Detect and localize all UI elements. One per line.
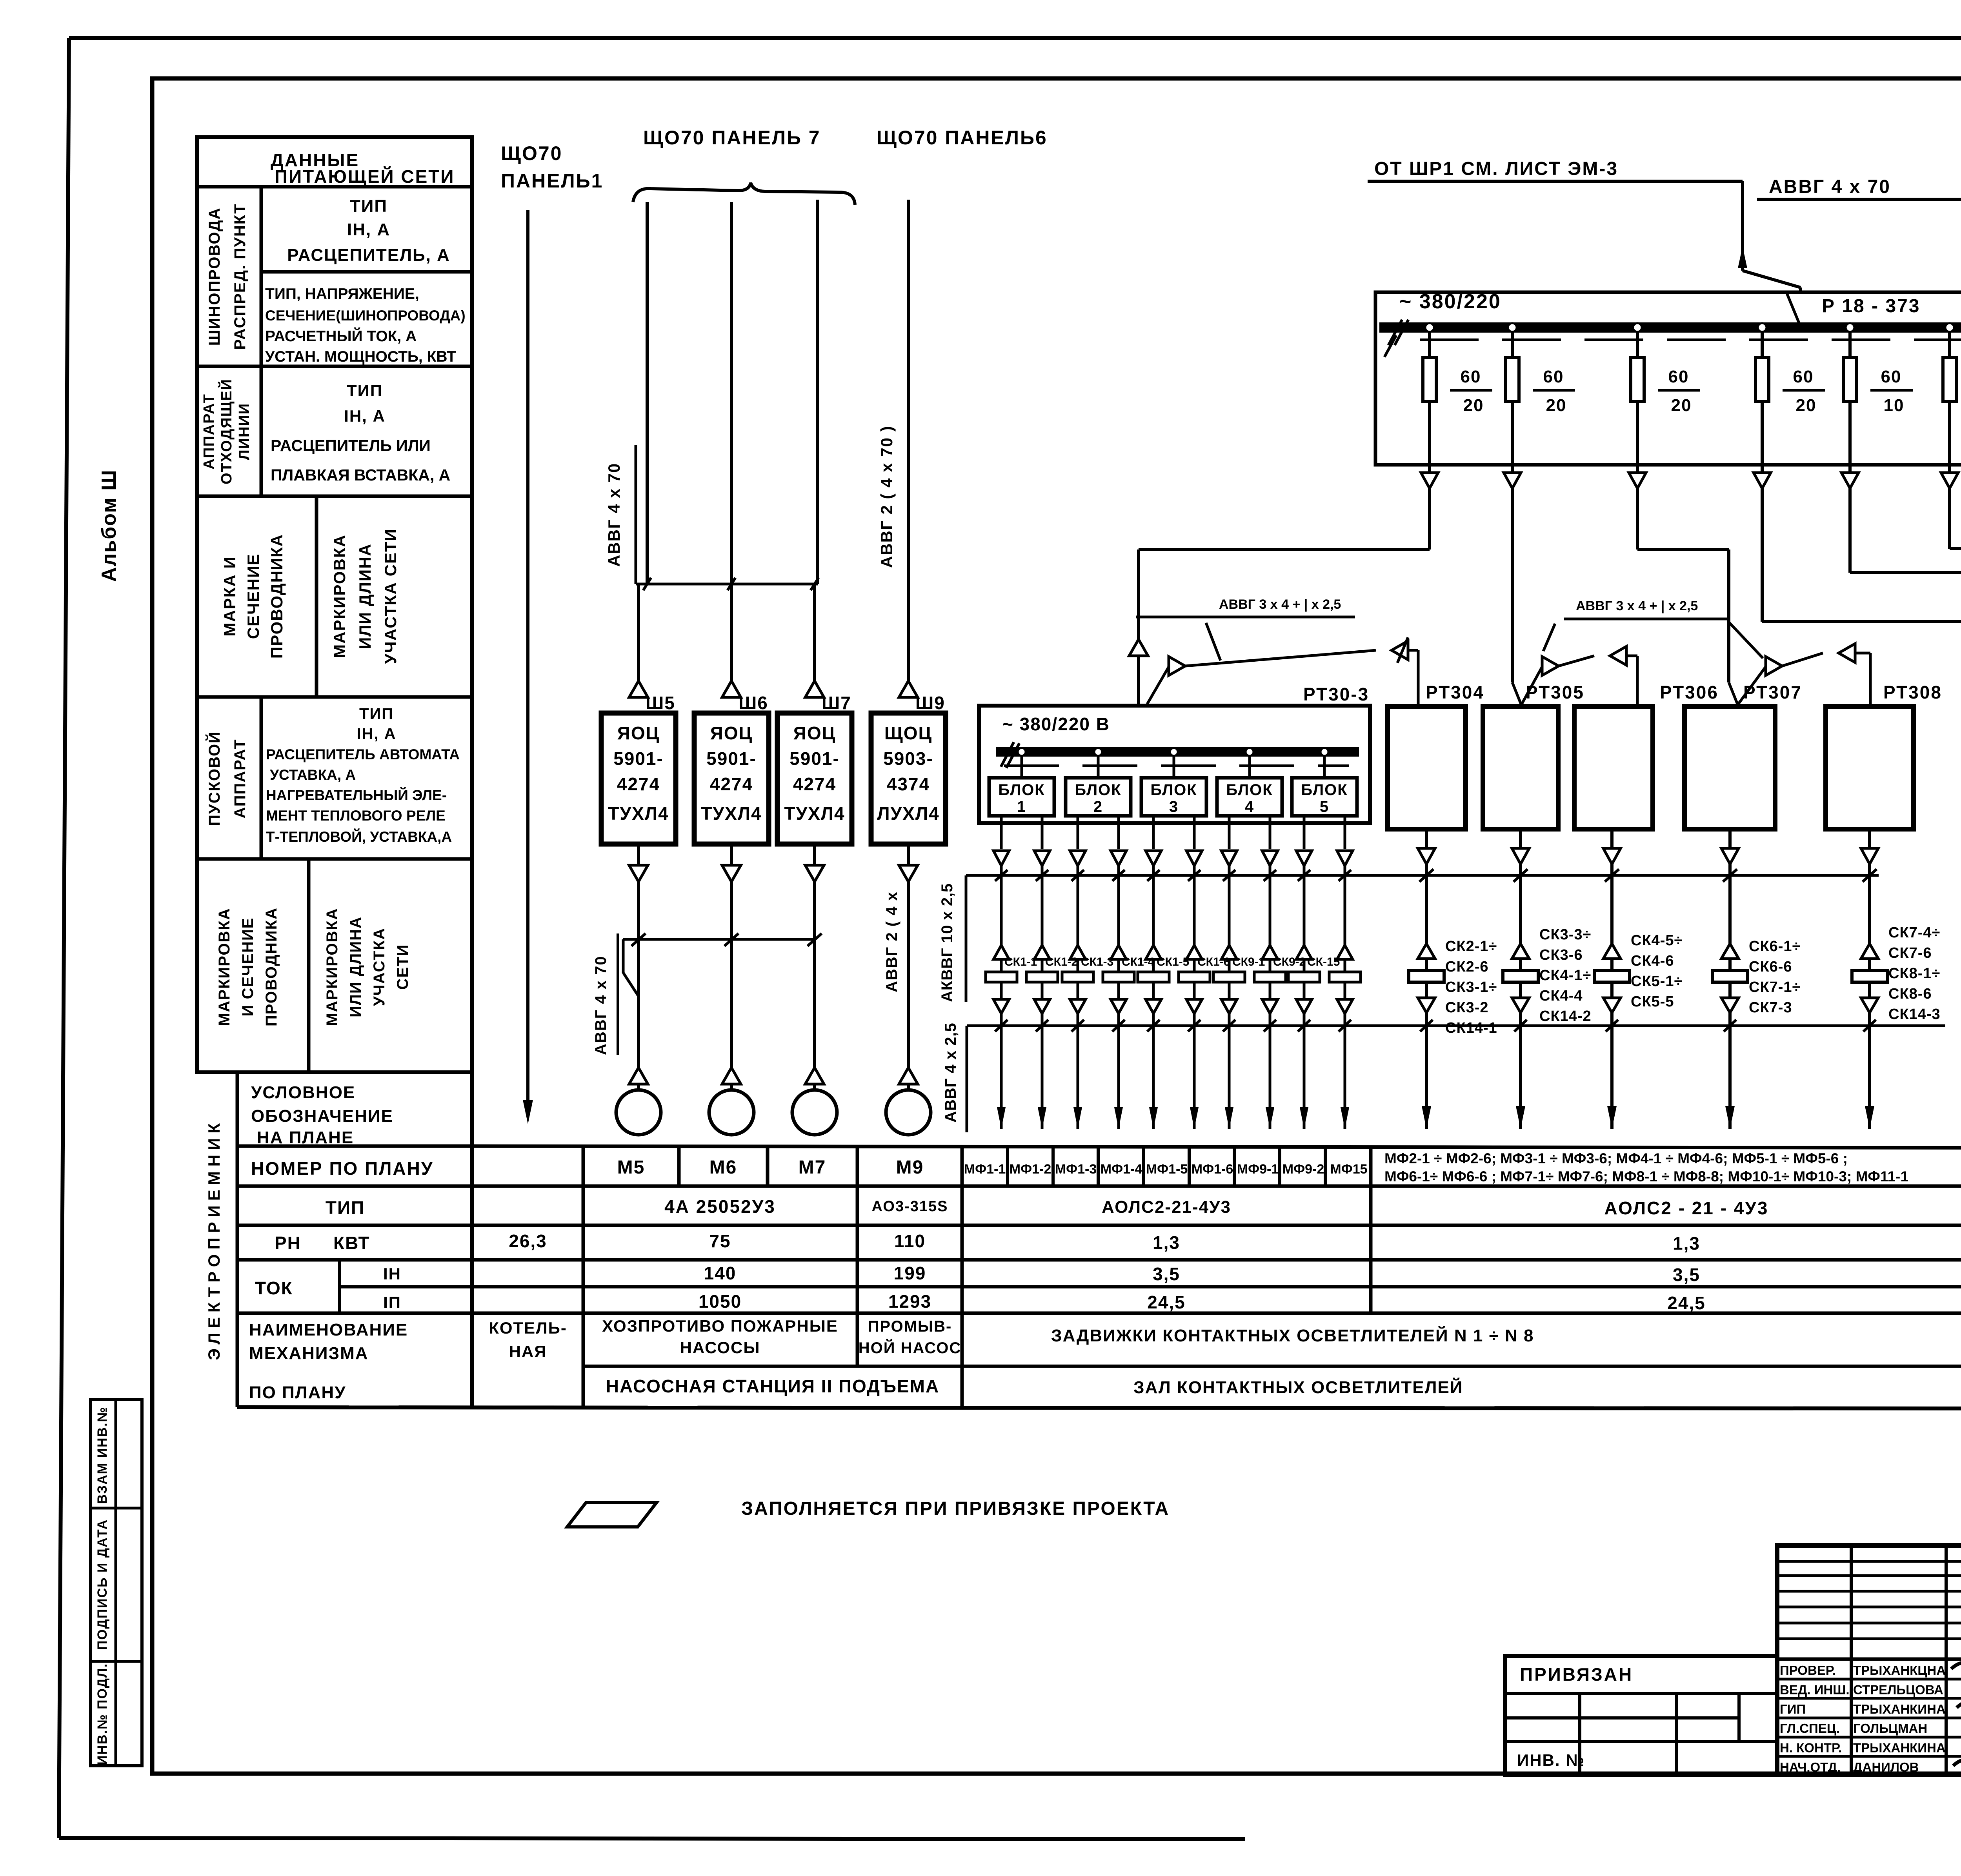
fuse СК drop 7 [1213, 875, 1245, 1026]
circuit breaker box Ш6 [694, 713, 769, 844]
svg-text:ТУХЛ4: ТУХЛ4 [608, 803, 669, 824]
svg-text:Ш5: Ш5 [646, 693, 675, 713]
label АВВГ 4х70 on Ш5 riser [605, 445, 636, 584]
svg-text:~ 380/220: ~ 380/220 [1399, 290, 1501, 313]
wire М5 drop [637, 882, 640, 1068]
label fuse 60/20 [1658, 367, 1700, 415]
type 4А 2505 2У3 [664, 1196, 776, 1217]
relay box РТ306 [1574, 706, 1653, 829]
node РТ30-3 tap 5 [1321, 748, 1328, 756]
wire СК collector [967, 1026, 1945, 1132]
svg-text:АОЛС2-21-4У3: АОЛС2-21-4У3 [1102, 1197, 1231, 1217]
svg-text:ЩО70 ПАНЕЛЬ6: ЩО70 ПАНЕЛЬ6 [877, 127, 1048, 149]
label 380/220В РТ30-3 [1002, 714, 1110, 734]
label Альбом III [98, 469, 120, 582]
cell Маркировка или длина участка сети 2 [324, 908, 411, 1026]
svg-text:Т-ТЕПЛОВОЙ, УСТАВКА,А: Т-ТЕПЛОВОЙ, УСТАВКА,А [266, 828, 452, 845]
svg-text:УСЛОВНОЕ: УСЛОВНОЕ [251, 1083, 355, 1102]
svg-text:ЗАДВИЖКИ КОНТАКТНЫХ ОСВЕТ: ЗАДВИЖКИ КОНТАКТНЫХ ОСВЕТЛИТЕЛЕЙ N 1 ÷ N… [1051, 1325, 1534, 1345]
node ШР2 tap 1 [1425, 323, 1434, 332]
node Ш9 feeder triangle [899, 681, 918, 697]
svg-text:АВВГ 4 х 70: АВВГ 4 х 70 [592, 955, 609, 1055]
switch РТ307 input [1729, 682, 1738, 706]
wire upper interconnect Ш5-Ш7 [636, 578, 819, 590]
svg-text:ИЛИ ДЛИНА: ИЛИ ДЛИНА [356, 543, 374, 649]
svg-text:РТ30-3: РТ30-3 [1303, 684, 1369, 704]
svg-text:5901-: 5901- [789, 748, 840, 769]
wire БЛОК output 5 [1146, 816, 1161, 881]
relay box РТ307 [1684, 706, 1775, 829]
value МФ15 [1330, 1162, 1367, 1177]
svg-text:Альбом Ш: Альбом Ш [98, 469, 120, 582]
svg-text:5901-: 5901- [613, 748, 664, 769]
svg-text:24,5: 24,5 [1667, 1293, 1706, 1313]
svg-text:АППАРАТ: АППАРАТ [231, 739, 249, 818]
svg-text:4274: 4274 [617, 774, 660, 794]
label СК-15 [1307, 955, 1340, 968]
svg-text:1: 1 [1017, 798, 1026, 815]
wire РТ304 fuse drop [1409, 875, 1444, 1026]
cell Условное обозначение на плане [251, 1083, 393, 1147]
wire БЛОК output 8 [1262, 816, 1278, 881]
circuit breaker box Ш5 [601, 713, 676, 844]
label СК1-5 [1157, 955, 1189, 968]
label fuse 60/20 [1533, 367, 1575, 415]
label СК1-6 [1197, 955, 1230, 968]
label РТ305 [1526, 682, 1584, 702]
svg-text:ХОЗПРОТИВО ПОЖАРНЫЕ: ХОЗПРОТИВО ПОЖАРНЫЕ [602, 1317, 838, 1335]
svg-text:IН, А: IН, А [357, 725, 396, 742]
svg-text:ГЛ.СПЕЦ.: ГЛ.СПЕЦ. [1780, 1721, 1840, 1736]
svg-text:ТРЫХАНКИНА: ТРЫХАНКИНА [1853, 1702, 1946, 1716]
wire РТ30-3 riser corner [1138, 550, 1139, 617]
wire РТ304 output [1418, 829, 1435, 875]
svg-text:СК1-4: СК1-4 [1122, 955, 1155, 968]
label СК9-1 [1232, 955, 1265, 968]
svg-text:4А 25052У3: 4А 25052У3 [664, 1196, 776, 1217]
block БЛОК 3 [1141, 756, 1206, 816]
svg-text:ПУСКОВОЙ: ПУСКОВОЙ [205, 731, 223, 826]
node Ш5 feeder triangle [629, 681, 648, 697]
arrow МФ group feeder 2 [1516, 1026, 1525, 1129]
label АВВГ 4х70 incoming [1757, 177, 1961, 199]
left margin strip [91, 1399, 142, 1766]
wire drop4 to ЯУ2 [1762, 488, 1961, 650]
bus РТ30-3 [996, 747, 1359, 757]
svg-text:ПОДПИСЬ И ДАТА: ПОДПИСЬ И ДАТА [95, 1519, 110, 1650]
block БЛОК 1 [989, 756, 1054, 816]
wire Ш6 output [722, 844, 741, 882]
wire РТ308 fuse drop [1852, 875, 1887, 1026]
row label Номер по плану [251, 1158, 433, 1179]
fuse СК drop 6 [1179, 875, 1210, 1026]
label 380/220 in ШР2 [1399, 290, 1501, 313]
label от ШР1 см лист ЭМ-3 [1374, 158, 1618, 179]
row label Аппарат отходящей линии [201, 378, 253, 484]
label Р18-373 [1822, 296, 1920, 317]
arrow on incoming wire [1738, 246, 1747, 268]
wire РТ305 fuse drop [1503, 875, 1538, 1026]
svg-text:МФ1-2: МФ1-2 [1010, 1162, 1051, 1177]
wire Ш5 output [629, 844, 648, 882]
motor М5 [616, 1068, 661, 1135]
svg-text:АВВГ 4 х 70: АВВГ 4 х 70 [605, 463, 623, 567]
svg-text:КВТ: КВТ [333, 1233, 370, 1253]
Рн 110 [894, 1231, 926, 1251]
svg-text:И СЕЧЕНИЕ: И СЕЧЕНИЕ [239, 917, 256, 1017]
switch РТ305 input [1512, 682, 1522, 706]
wire М9 drop [907, 882, 910, 1068]
wire БЛОК output 10 [1337, 816, 1353, 881]
wire М6 drop [726, 882, 731, 1068]
svg-text:М5: М5 [617, 1157, 645, 1178]
svg-text:МАРКИРОВКА: МАРКИРОВКА [330, 534, 349, 658]
svg-text:ТОК: ТОК [255, 1278, 293, 1298]
joint РТ305 to РТ306 [1522, 646, 1637, 706]
block БЛОК 4 [1217, 756, 1282, 816]
stamp ПРИВЯЗАН block [1505, 1656, 1777, 1775]
arrow МФ feeder 3 [1073, 1026, 1082, 1129]
label СК group at 4815 [1888, 924, 1941, 1023]
svg-text:ТИП: ТИП [350, 197, 387, 216]
svg-text:СК2-1÷: СК2-1÷ [1445, 938, 1497, 955]
svg-text:ТИП: ТИП [359, 705, 394, 722]
fuse СК drop 9 [1288, 875, 1320, 1026]
switch ШР2 incoming [1787, 293, 1801, 327]
node РТ30-3 tap 1 [1018, 748, 1026, 756]
svg-text:РАСЦЕПИТЕЛЬ АВТОМАТА: РАСЦЕПИТЕЛЬ АВТОМАТА [266, 746, 460, 762]
svg-text:МФ1-5: МФ1-5 [1146, 1162, 1188, 1177]
row label Пусковой аппарат [205, 731, 249, 826]
svg-text:МФ2-1 ÷ МФ2-6; МФ3-1 ÷ МФ3-6;: МФ2-1 ÷ МФ2-6; МФ3-1 ÷ МФ3-6; МФ4-1 ÷ МФ… [1384, 1150, 1848, 1166]
Рн 1,3 b [1673, 1233, 1700, 1254]
svg-text:1293: 1293 [888, 1291, 931, 1312]
row label Шинопровода распред пункт [206, 203, 249, 349]
svg-text:СК14-1: СК14-1 [1445, 1020, 1497, 1036]
svg-text:НАЯ: НАЯ [509, 1342, 547, 1361]
svg-text:СЕЧЕНИЕ(ШИНОПРОВОДА): СЕЧЕНИЕ(ШИНОПРОВОДА) [265, 308, 466, 324]
svg-text:БЛОК: БЛОК [1150, 781, 1197, 799]
Рн 1,3 a [1153, 1232, 1180, 1253]
value М7 [799, 1157, 826, 1178]
wire drop5 to КМ6 [1850, 488, 1961, 706]
svg-text:СК4-5÷: СК4-5÷ [1631, 932, 1683, 949]
wire ШР2 drop 6 [1941, 465, 1958, 488]
cell Марка и сечение проводника [220, 534, 286, 659]
value М5 [617, 1157, 645, 1178]
wire М7 drop [813, 882, 816, 1068]
wire from ШР1 [1368, 181, 1801, 293]
arrow МФ feeder 10 [1341, 1026, 1349, 1129]
svg-text:СК7-1÷: СК7-1÷ [1749, 979, 1801, 995]
svg-text:СК14-2: СК14-2 [1539, 1008, 1592, 1024]
svg-text:2: 2 [1093, 798, 1103, 815]
svg-text:СК1-1: СК1-1 [1004, 955, 1037, 968]
svg-text:5: 5 [1320, 798, 1329, 815]
svg-text:РТ304: РТ304 [1426, 682, 1484, 702]
wire Ш7 output [805, 844, 824, 882]
Рн 75 [709, 1231, 731, 1251]
node ШР2 tap 4 [1758, 323, 1766, 332]
svg-text:УСТАН. МОЩНОСТЬ, КВТ: УСТАН. МОЩНОСТЬ, КВТ [265, 348, 456, 365]
svg-text:ЯОЦ: ЯОЦ [617, 723, 660, 743]
svg-text:ПРОМЫВ-: ПРОМЫВ- [868, 1318, 952, 1335]
wire Ш9 riser / панель6 feeder [907, 200, 910, 683]
label АВВГ2 4х70 М9 drop [883, 891, 900, 992]
svg-text:IП: IП [383, 1293, 401, 1312]
svg-text:ОТХОДЯЩЕЙ: ОТХОДЯЩЕЙ [217, 378, 235, 484]
svg-text:20: 20 [1796, 396, 1817, 415]
label АВВГ 3х4+1х2,5 group1 [1136, 597, 1355, 661]
svg-text:ПРОВОДНИКА: ПРОВОДНИКА [267, 534, 286, 659]
svg-text:ТИП: ТИП [326, 1197, 365, 1218]
cell Маркировка и сечение проводника 2 [216, 907, 280, 1026]
wire РТ collector [966, 875, 1879, 1002]
svg-text:БЛОК: БЛОК [1226, 781, 1273, 799]
wire drop3 to РТ307 [1637, 488, 1729, 682]
svg-text:ЗАЛ КОНТАКТНЫХ ОСВЕТЛ: ЗАЛ КОНТАКТНЫХ ОСВЕТЛИТЕЛЕЙ [1133, 1377, 1463, 1397]
label ЩО70 панель6 [877, 127, 1048, 149]
svg-text:НОМЕР ПО ПЛАНУ: НОМЕР ПО ПЛАНУ [251, 1158, 433, 1179]
wire ЩО70 панель1 feeder to Котельная [526, 210, 529, 1101]
svg-text:АКВВГ 10 х 2,5: АКВВГ 10 х 2,5 [939, 883, 956, 1002]
label СК group at 3685 [1445, 938, 1497, 1036]
fuse СК drop 5 [1138, 875, 1169, 1026]
name Насосная станция II подъема [606, 1376, 939, 1396]
svg-text:ЯОЦ: ЯОЦ [793, 723, 836, 743]
node ШР2 tap 3 [1633, 323, 1642, 332]
svg-text:75: 75 [709, 1231, 731, 1251]
svg-text:24,5: 24,5 [1147, 1292, 1186, 1312]
feeder data table [197, 137, 472, 1407]
wire ШР2 drop 4 [1754, 465, 1771, 488]
Iн 3,5 a [1153, 1264, 1180, 1284]
Iп 1050 [699, 1291, 742, 1312]
svg-text:ПО ПЛАНУ: ПО ПЛАНУ [249, 1383, 346, 1402]
svg-text:РН: РН [275, 1233, 301, 1253]
arrow МФ group feeder 1 [1422, 1026, 1431, 1129]
svg-text:3: 3 [1169, 798, 1179, 815]
svg-text:3,5: 3,5 [1153, 1264, 1180, 1284]
svg-text:5903-: 5903- [883, 748, 933, 769]
label ЩО70 панель7 [643, 127, 821, 149]
label fuse 60/10 [1870, 367, 1913, 415]
svg-text:АВВГ 2 ( 4 х 70 ): АВВГ 2 ( 4 х 70 ) [877, 425, 896, 568]
svg-text:ТУХЛ4: ТУХЛ4 [784, 803, 845, 824]
label АВВГ 4х70 М5 drop [592, 933, 618, 1055]
svg-text:СК3-1÷: СК3-1÷ [1445, 979, 1497, 995]
arrow Котельная feeder end [523, 1100, 533, 1124]
svg-text:ДАНИЛОВ: ДАНИЛОВ [1853, 1760, 1919, 1774]
wire ШР2 drop 5 [1841, 465, 1859, 488]
arrow МФ feeder 6 [1190, 1026, 1199, 1129]
svg-text:МАРКИРОВКА: МАРКИРОВКА [216, 908, 233, 1026]
svg-text:МАРКИРОВКА: МАРКИРОВКА [324, 908, 341, 1026]
label ЩО70 панель1 [501, 142, 603, 192]
Iн 3,5 b [1673, 1265, 1700, 1285]
wire РТ305 output [1512, 829, 1529, 875]
svg-text:ОБОЗНАЧЕНИЕ: ОБОЗНАЧЕНИЕ [251, 1106, 393, 1126]
svg-text:1,3: 1,3 [1673, 1233, 1700, 1254]
label СК group at 3925 [1539, 926, 1592, 1024]
svg-text:ТУХЛ4: ТУХЛ4 [701, 803, 762, 824]
circuit breaker box Ш9 [871, 713, 946, 844]
fuse СК drop 8 [1254, 875, 1286, 1026]
svg-text:1050: 1050 [699, 1291, 742, 1312]
svg-text:20: 20 [1546, 396, 1567, 415]
svg-text:ЩОЦ: ЩОЦ [884, 723, 932, 743]
wire Ш5 riser [639, 202, 647, 683]
fuse FU5 [1843, 332, 1857, 465]
cell Тип Iн Расцепитель или плавкая вставка [271, 381, 450, 484]
svg-text:МФ1-4: МФ1-4 [1101, 1162, 1142, 1177]
svg-text:ПРОВОДНИКА: ПРОВОДНИКА [263, 907, 280, 1026]
label Ш5 [646, 693, 675, 713]
arrow МФ feeder 8 [1266, 1026, 1274, 1129]
wire drop6 to Резерв1 [1950, 488, 1961, 961]
svg-text:УЧАСТКА: УЧАСТКА [371, 928, 388, 1006]
svg-text:СК1-6: СК1-6 [1197, 955, 1230, 968]
svg-text:МФ9-1: МФ9-1 [1237, 1162, 1279, 1177]
svg-text:МФ6-1÷ МФ6-6 ; МФ7-1÷ МФ7-6;: МФ6-1÷ МФ6-6 ; МФ7-1÷ МФ7-6; МФ8-1 ÷ МФ8… [1384, 1168, 1908, 1185]
svg-text:НАЧ.ОТД.: НАЧ.ОТД. [1780, 1760, 1841, 1774]
value МФ1-6 [1192, 1162, 1233, 1177]
wire ШР2 drop 2 [1504, 465, 1521, 488]
svg-text:СК6-1÷: СК6-1÷ [1749, 938, 1801, 955]
svg-text:МФ15: МФ15 [1330, 1162, 1367, 1177]
value МФ9-2 [1282, 1162, 1324, 1177]
label СК1-2 [1045, 955, 1078, 968]
svg-text:ПРОВЕР.: ПРОВЕР. [1780, 1663, 1836, 1678]
svg-text:СК1-3: СК1-3 [1081, 955, 1113, 968]
relay box РТ308 [1826, 706, 1914, 829]
svg-text:СК1-5: СК1-5 [1157, 955, 1189, 968]
svg-text:МФ9-2: МФ9-2 [1282, 1162, 1324, 1177]
type АОЛС2-21-4У3 b [1604, 1198, 1768, 1218]
fuse СК drop 3 [1062, 875, 1093, 1026]
fuse СК drop 2 [1026, 875, 1058, 1026]
svg-text:АВВГ 2 ( 4 х: АВВГ 2 ( 4 х [883, 891, 900, 992]
label РТ307 [1743, 682, 1802, 702]
arrow МФ group feeder 3 [1607, 1026, 1617, 1129]
stamp persons column [1780, 1663, 1946, 1774]
type АО3-315S [871, 1198, 948, 1215]
svg-text:АВВГ 4 х 70: АВВГ 4 х 70 [1769, 177, 1891, 197]
svg-text:НАСОСНАЯ СТАНЦИЯ II ПОДЪЕМА: НАСОСНАЯ СТАНЦИЯ II ПОДЪЕМА [606, 1376, 939, 1396]
svg-text:СК8-1÷: СК8-1÷ [1888, 965, 1940, 982]
svg-text:ШИНОПРОВОДА: ШИНОПРОВОДА [206, 207, 223, 346]
motor М7 [792, 1068, 837, 1135]
svg-text:4274: 4274 [793, 774, 836, 794]
label СК group at 4158 [1631, 932, 1683, 1010]
value М9 [896, 1157, 924, 1178]
svg-text:РАСЧЕТНЫЙ ТОК, А: РАСЧЕТНЫЙ ТОК, А [265, 327, 417, 345]
svg-text:60: 60 [1543, 367, 1564, 386]
svg-text:АППАРАТ: АППАРАТ [201, 393, 217, 469]
svg-text:НАГРЕВАТЕЛЬНЫЙ ЭЛЕ-: НАГРЕВАТЕЛЬНЫЙ ЭЛЕ- [266, 787, 447, 803]
node РТ30-3 tap 3 [1170, 748, 1178, 756]
wire БЛОК output 1 [993, 816, 1009, 881]
cabinet ШР2 [1375, 292, 1961, 465]
svg-text:М6: М6 [709, 1157, 737, 1178]
value М6 [709, 1157, 737, 1178]
svg-text:МФ1-3: МФ1-3 [1055, 1162, 1097, 1177]
node ШР2 tap 2 [1508, 323, 1517, 332]
cell Тип напряжение сечение шинопровода [265, 286, 466, 365]
svg-text:МЕНТ ТЕПЛОВОГО РЕЛЕ: МЕНТ ТЕПЛОВОГО РЕЛЕ [266, 808, 446, 824]
svg-text:20: 20 [1463, 396, 1484, 415]
relay box РТ305 [1483, 706, 1558, 829]
svg-text:ЗАПОЛНЯЕТСЯ ПРИ ПРИВЯЗКЕ: ЗАПОЛНЯЕТСЯ ПРИ ПРИВЯЗКЕ ПРОЕКТА [741, 1498, 1170, 1519]
name Промывной насос [859, 1318, 962, 1357]
label АКВВГ 10х2,5 area [939, 883, 956, 1002]
label АВВГ 4х2,5 area [942, 1023, 959, 1123]
svg-text:МАРКА И: МАРКА И [220, 556, 239, 636]
svg-text:ТИП, НАПРЯЖЕНИЕ,: ТИП, НАПРЯЖЕНИЕ, [265, 286, 419, 302]
svg-text:ПРИВЯЗАН: ПРИВЯЗАН [1520, 1664, 1633, 1685]
wire Ш9 output [899, 844, 918, 882]
svg-text:ИНВ. №: ИНВ. № [1517, 1751, 1585, 1769]
label ИНВ № ПОДЛ [95, 1663, 110, 1765]
svg-text:СК7-6: СК7-6 [1888, 945, 1932, 961]
svg-text:СК5-1÷: СК5-1÷ [1631, 973, 1683, 990]
svg-text:ГИП: ГИП [1780, 1702, 1806, 1716]
svg-text:СК9-1: СК9-1 [1232, 955, 1265, 968]
svg-text:20: 20 [1671, 396, 1692, 415]
joint РТ30-3 to РТ304 [1147, 637, 1418, 706]
wire drop1 to РТ30-3 [1129, 488, 1430, 711]
svg-text:60: 60 [1881, 367, 1902, 386]
fuse СК drop 10 [1329, 875, 1361, 1026]
label СК1-1 [1004, 955, 1037, 968]
svg-text:ПЛАВКАЯ ВСТАВКА, А: ПЛАВКАЯ ВСТАВКА, А [271, 466, 450, 484]
svg-text:РТ306: РТ306 [1660, 682, 1719, 702]
svg-text:АВВГ 3 х 4 + | х 2,5: АВВГ 3 х 4 + | х 2,5 [1576, 599, 1698, 613]
node РТ30-3 tap 4 [1246, 748, 1253, 756]
label ПОДПИСЬ И ДАТА [95, 1519, 110, 1650]
svg-text:НОЙ НАСОС: НОЙ НАСОС [859, 1339, 962, 1357]
cell Тип Iн Расцепитель автомата [266, 705, 460, 845]
wire Ш6 riser [730, 202, 733, 683]
arrow МФ feeder 1 [997, 1026, 1006, 1129]
svg-text:1,3: 1,3 [1153, 1232, 1180, 1253]
label СК1-4 [1122, 955, 1155, 968]
type АОЛС2-21-4У3 a [1102, 1197, 1231, 1217]
wire РТ307 fuse drop [1712, 875, 1748, 1026]
wire БЛОК output 6 [1186, 816, 1202, 881]
svg-text:ТРЫХАНКЦНА: ТРЫХАНКЦНА [1853, 1663, 1946, 1678]
row label Тип [326, 1197, 365, 1218]
svg-text:ЯОЦ: ЯОЦ [710, 723, 753, 743]
wire Ш7 riser [815, 200, 818, 683]
svg-text:БЛОК: БЛОК [998, 781, 1045, 799]
svg-text:СК14-3: СК14-3 [1888, 1006, 1941, 1023]
svg-text:СК4-1÷: СК4-1÷ [1539, 967, 1591, 984]
bus РТ30-3 hatch [1001, 742, 1019, 768]
svg-text:60: 60 [1793, 367, 1814, 386]
svg-text:4274: 4274 [710, 774, 753, 794]
label РТ306 [1660, 682, 1719, 702]
svg-text:Ш6: Ш6 [739, 693, 768, 713]
svg-text:АВВГ 3 х 4 + | х 2,5: АВВГ 3 х 4 + | х 2,5 [1219, 597, 1341, 612]
svg-text:НАСОСЫ: НАСОСЫ [680, 1338, 760, 1357]
svg-text:IН: IН [383, 1265, 401, 1283]
svg-text:Ш7: Ш7 [822, 693, 851, 713]
bus ШР2 [1379, 322, 1961, 333]
svg-text:МЕХАНИЗМА: МЕХАНИЗМА [249, 1344, 369, 1363]
Iп 1293 [888, 1291, 931, 1312]
label Ш7 [822, 693, 851, 713]
